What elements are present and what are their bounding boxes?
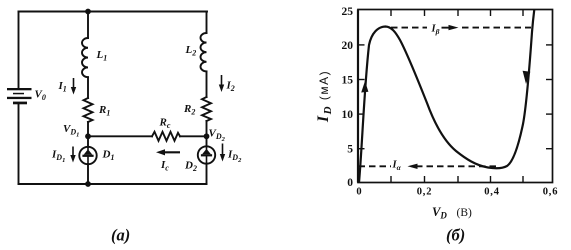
svg-text:Iβ: Iβ [431,24,440,37]
svg-text:R2: R2 [183,103,195,117]
svg-text:I2: I2 [226,80,235,94]
svg-text:D2: D2 [184,160,197,174]
svg-text:15: 15 [342,75,354,87]
svg-text:(В): (В) [457,207,473,219]
svg-text:(б): (б) [446,226,465,245]
svg-text:V0: V0 [35,89,46,103]
svg-text:0,4: 0,4 [484,187,500,198]
svg-text:Rc: Rc [159,117,171,131]
svg-text:VD1: VD1 [63,123,79,139]
svg-text:Iα: Iα [392,160,402,173]
svg-text:R1: R1 [98,104,110,118]
svg-text:Ic: Ic [160,159,169,173]
svg-text:ID1: ID1 [51,149,65,165]
svg-text:0,6: 0,6 [543,187,559,198]
svg-text:0: 0 [347,177,353,189]
svg-text:25: 25 [342,6,354,18]
svg-text:10: 10 [342,109,354,121]
svg-text:(а): (а) [111,226,130,245]
svg-text:VD2: VD2 [209,128,226,144]
svg-text:L1: L1 [96,49,108,63]
svg-text:0,2: 0,2 [417,187,433,198]
svg-text:L2: L2 [185,44,197,58]
svg-text:0: 0 [356,187,361,198]
svg-text:ID2: ID2 [227,149,242,165]
svg-text:20: 20 [342,40,354,52]
svg-text:ID (мА): ID (мА) [315,70,334,123]
svg-text:5: 5 [347,144,353,156]
svg-text:D1: D1 [102,149,115,163]
svg-text:I1: I1 [58,80,67,94]
svg-text:VD: VD [432,205,447,221]
